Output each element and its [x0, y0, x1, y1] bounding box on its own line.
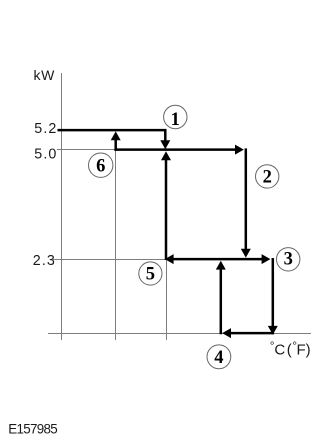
svg-text:6: 6 [96, 157, 105, 177]
svg-text:5: 5 [146, 264, 155, 284]
svg-text:5.2: 5.2 [34, 121, 57, 137]
svg-text:1: 1 [171, 110, 180, 130]
svg-text:2.3: 2.3 [33, 253, 56, 269]
svg-text:2: 2 [263, 167, 272, 187]
svg-text:C: C [274, 341, 285, 358]
svg-text:5.0: 5.0 [34, 146, 57, 162]
svg-text:F): F) [297, 341, 311, 358]
svg-text:E157985: E157985 [8, 421, 57, 436]
svg-text:kW: kW [34, 67, 56, 83]
svg-text:4: 4 [214, 348, 223, 368]
svg-text:(: ( [287, 341, 292, 358]
svg-text:3: 3 [284, 250, 293, 270]
